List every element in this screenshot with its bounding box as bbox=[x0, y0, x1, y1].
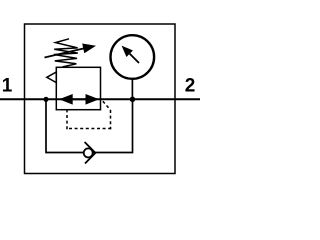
junction node left bbox=[43, 97, 48, 102]
gauge stem wire bbox=[131, 80, 133, 99]
pressure gauge body bbox=[111, 35, 155, 79]
svg-text:2: 2 bbox=[185, 76, 196, 97]
adjustment arrow bbox=[45, 44, 97, 58]
gauge needle bbox=[122, 46, 139, 63]
wire bottom bypass line bbox=[46, 152, 133, 154]
regulator valve body box bbox=[56, 67, 100, 109]
svg-text:1: 1 bbox=[2, 76, 13, 97]
relief vent triangle bbox=[47, 72, 57, 83]
check valve seat bbox=[85, 142, 96, 164]
wire right branch down bbox=[132, 99, 134, 153]
pilot control dashed line bbox=[66, 100, 111, 129]
junction node right bbox=[130, 97, 136, 103]
spring adjustable bbox=[54, 39, 78, 67]
enclosure outer box bbox=[25, 24, 176, 174]
wire left branch down bbox=[45, 99, 47, 153]
wire main flow line port 1 to port 2 bbox=[0, 98, 200, 100]
flow path double arrow bbox=[59, 94, 99, 105]
check valve ball bbox=[84, 148, 93, 157]
